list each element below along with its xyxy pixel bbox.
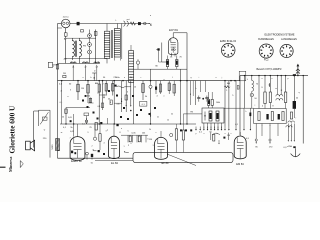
svg-text:a: a — [82, 77, 84, 79]
svg-text:u1: u1 — [72, 67, 75, 69]
svg-text:ant: ant — [127, 18, 130, 21]
svg-text:o: o — [107, 130, 109, 132]
svg-text:L: L — [247, 79, 249, 81]
svg-text:0,1: 0,1 — [60, 102, 63, 104]
svg-text:k: k — [246, 111, 247, 113]
svg-text:4: 4 — [60, 91, 61, 93]
svg-text:1M: 1M — [149, 139, 152, 141]
svg-text:0,05: 0,05 — [70, 131, 74, 133]
svg-text:10k: 10k — [142, 133, 146, 135]
svg-text:0,05: 0,05 — [68, 117, 72, 119]
svg-text:D: D — [94, 71, 96, 73]
svg-text:2n: 2n — [157, 117, 159, 119]
svg-text:ECH 81: ECH 81 — [169, 29, 178, 32]
svg-text:0,1: 0,1 — [235, 124, 239, 126]
svg-text:z: z — [156, 132, 157, 134]
svg-text:n: n — [271, 78, 272, 80]
svg-text:50: 50 — [103, 77, 106, 79]
svg-text:1k: 1k — [167, 120, 169, 122]
svg-text:y: y — [196, 133, 197, 135]
svg-text:4: 4 — [262, 106, 264, 108]
svg-text:b: b — [90, 77, 91, 79]
svg-text:85: 85 — [255, 147, 258, 149]
svg-text:r: r — [296, 117, 297, 120]
svg-text:0,1: 0,1 — [98, 106, 102, 108]
svg-text:50k: 50k — [87, 96, 91, 98]
svg-text:LANGWELLEN: LANGWELLEN — [281, 38, 297, 41]
svg-text:7M: 7M — [190, 112, 193, 114]
svg-text:80: 80 — [155, 65, 158, 67]
svg-text:50: 50 — [209, 131, 212, 133]
svg-text:0: 0 — [130, 143, 131, 145]
svg-text:0,1: 0,1 — [142, 104, 146, 106]
svg-text:i: i — [199, 77, 200, 79]
svg-text:x: x — [124, 77, 126, 79]
svg-text:m: m — [275, 88, 277, 90]
svg-text:n: n — [121, 128, 123, 130]
svg-text:8: 8 — [272, 106, 274, 108]
svg-text:5: 5 — [232, 95, 234, 97]
svg-text:FM: FM — [83, 46, 86, 48]
svg-text:l: l — [255, 105, 256, 107]
svg-text:5k: 5k — [70, 127, 73, 129]
svg-text:f: f — [172, 77, 173, 79]
svg-text:1: 1 — [226, 90, 228, 92]
svg-text:3: 3 — [70, 90, 71, 92]
svg-text:u: u — [224, 133, 225, 135]
svg-text:10: 10 — [254, 98, 257, 100]
svg-text:S: S — [261, 87, 263, 89]
svg-text:21MHz: 21MHz — [113, 77, 119, 79]
svg-text:R: R — [281, 90, 283, 92]
svg-text:25: 25 — [89, 127, 92, 129]
svg-text:0,1: 0,1 — [59, 84, 63, 86]
svg-text:KURZWELLEN: KURZWELLEN — [258, 39, 274, 41]
svg-text:EL 84: EL 84 — [111, 161, 118, 165]
svg-text:9: 9 — [87, 132, 88, 134]
svg-text:q: q — [298, 92, 299, 94]
svg-text:EM 84: EM 84 — [236, 162, 244, 166]
svg-text:5: 5 — [127, 131, 128, 133]
svg-text:220: 220 — [43, 138, 47, 140]
svg-text:2: 2 — [91, 146, 92, 148]
svg-text:u2: u2 — [84, 67, 87, 69]
svg-text:1n: 1n — [97, 93, 99, 95]
svg-text:10: 10 — [134, 87, 136, 89]
svg-text:EABC 80: EABC 80 — [71, 159, 82, 163]
svg-text:5k: 5k — [171, 114, 173, 116]
svg-text:7: 7 — [69, 138, 70, 140]
svg-text:AM: AM — [95, 82, 98, 85]
svg-text:z: z — [215, 77, 216, 79]
svg-text:U: U — [44, 130, 46, 132]
svg-text:5000: 5000 — [52, 144, 54, 150]
svg-text:2: 2 — [128, 145, 130, 147]
svg-text:AM: AM — [227, 82, 230, 85]
svg-text:Gloriette 600 U: Gloriette 600 U — [8, 105, 17, 154]
svg-text:w: w — [61, 132, 63, 134]
svg-text:0,5: 0,5 — [246, 138, 250, 140]
svg-text:v: v — [231, 133, 232, 135]
svg-text:1: 1 — [123, 146, 124, 148]
svg-text:4: 4 — [103, 143, 104, 145]
svg-text:p: p — [287, 78, 288, 80]
svg-text:6: 6 — [147, 139, 148, 141]
svg-text:8: 8 — [190, 94, 192, 96]
svg-text:u: u — [67, 96, 69, 98]
svg-text:50: 50 — [62, 117, 64, 119]
svg-text:h: h — [195, 88, 196, 90]
svg-text:100: 100 — [116, 104, 120, 106]
svg-text:0,1: 0,1 — [199, 131, 203, 133]
svg-text:Minerva: Minerva — [8, 156, 13, 172]
svg-text:70: 70 — [179, 56, 182, 58]
svg-text:2k: 2k — [149, 129, 151, 131]
svg-text:170: 170 — [269, 147, 273, 149]
svg-text:g: g — [190, 77, 191, 79]
svg-text:70: 70 — [256, 84, 258, 86]
svg-text:2: 2 — [102, 84, 103, 86]
svg-text:30: 30 — [69, 84, 72, 86]
svg-text:3: 3 — [105, 131, 106, 133]
svg-text:100k: 100k — [216, 102, 220, 104]
svg-text:0,1: 0,1 — [82, 124, 85, 126]
svg-text:5k: 5k — [145, 96, 147, 98]
svg-text:6: 6 — [127, 92, 128, 94]
svg-text:FC2: FC2 — [264, 58, 269, 61]
svg-text:e: e — [163, 96, 164, 98]
svg-text:1M: 1M — [227, 135, 230, 137]
svg-text:ELEKTRODENSYSTEME: ELEKTRODENSYSTEME — [265, 32, 295, 36]
svg-text:0,1: 0,1 — [63, 127, 67, 129]
svg-text:2k: 2k — [296, 98, 299, 100]
svg-text:s: s — [270, 125, 271, 127]
svg-text:c: c — [141, 77, 142, 79]
svg-text:d: d — [156, 96, 157, 98]
svg-text:L: L — [115, 20, 117, 22]
svg-text:50: 50 — [91, 162, 93, 164]
svg-text:o: o — [261, 78, 262, 80]
svg-text:2xO,1: 2xO,1 — [63, 17, 70, 19]
svg-text:j: j — [221, 77, 223, 79]
svg-text:8: 8 — [119, 132, 120, 134]
svg-text:s.FM4: s.FM4 — [287, 146, 292, 148]
svg-text:EF 89: EF 89 — [162, 161, 169, 165]
svg-text:Bereich II 87,5-100MHz: Bereich II 87,5-100MHz — [256, 68, 282, 71]
svg-text:AM: AM — [64, 58, 67, 61]
svg-text:x: x — [204, 133, 205, 135]
svg-text:2M: 2M — [63, 73, 66, 75]
svg-text:1: 1 — [53, 66, 55, 68]
svg-text:1M: 1M — [81, 88, 84, 90]
svg-text:6: 6 — [150, 15, 152, 17]
svg-text:0,05: 0,05 — [131, 133, 136, 135]
svg-text:3: 3 — [152, 145, 153, 147]
svg-text:u3: u3 — [96, 67, 99, 69]
svg-text:EABC 80 EL 84: EABC 80 EL 84 — [220, 40, 237, 43]
svg-text:1k: 1k — [170, 56, 173, 58]
svg-text:t: t — [262, 124, 263, 127]
